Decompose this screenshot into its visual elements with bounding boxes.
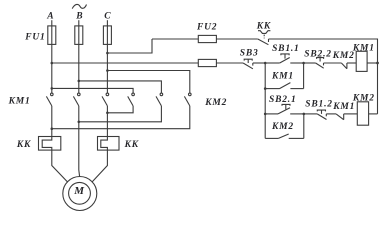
svg-text:KM1: KM1 — [271, 71, 294, 81]
button SB2.2 label — [304, 49, 332, 59]
wire C tap to control riser — [107, 39, 152, 53]
wire contact4 to node W — [107, 106, 133, 113]
button SB1.1 label — [272, 44, 300, 54]
thermal relay KK label right — [124, 140, 139, 150]
wire phase B vertical — [78, 44, 80, 93]
wire phase A top stub — [51, 20, 53, 26]
contact KM1 aux label — [271, 71, 294, 81]
svg-text:B: B — [75, 11, 83, 21]
svg-text:A: A — [46, 11, 54, 21]
node bus junction — [376, 62, 379, 65]
contact KM2 interlock (NC) — [324, 63, 357, 69]
svg-text:KM2: KM2 — [204, 98, 227, 108]
node W junction — [106, 112, 109, 115]
node: A feed junction for KM2 — [51, 87, 54, 90]
wire A tap to FU2 — [52, 62, 199, 64]
svg-text:SB2.1: SB2.1 — [269, 95, 297, 105]
svg-text:KK: KK — [256, 21, 271, 31]
wire motor lead right — [92, 150, 108, 182]
wire branch vertical X1 down — [264, 63, 266, 138]
svg-text:KM1: KM1 — [332, 102, 355, 112]
svg-text:SB1.2: SB1.2 — [305, 99, 333, 109]
node aux1 junction — [264, 87, 267, 90]
coil KM2 — [357, 102, 368, 125]
wire contact3 bottom — [106, 106, 108, 137]
contact KM1 interlock label (rung2) — [332, 102, 355, 112]
wire C feed to contact 6 — [107, 71, 189, 93]
button SB2.1 (NO) — [265, 104, 304, 114]
thermal contact KK blade (NC) — [258, 39, 269, 45]
thermal contact KK actuator — [258, 31, 270, 39]
fuse FU1 phase B — [75, 26, 83, 45]
wire phase B top stub — [78, 20, 80, 26]
svg-text:FU1: FU1 — [24, 32, 45, 42]
wire contact5 to node V — [79, 106, 162, 122]
svg-text:KM1: KM1 — [352, 44, 375, 54]
contact KM1 pole 3 — [102, 93, 109, 106]
svg-text:KM1: KM1 — [8, 97, 31, 107]
fuse FU1 phase A — [48, 26, 56, 45]
svg-text:C: C — [104, 11, 111, 21]
wire phase C top stub — [106, 20, 108, 26]
svg-text:KM2: KM2 — [271, 122, 294, 132]
svg-text:M: M — [73, 185, 85, 197]
svg-text:FU2: FU2 — [196, 22, 217, 32]
svg-text:SB3: SB3 — [240, 49, 259, 59]
wire phase A vertical — [51, 44, 53, 93]
node B label — [75, 11, 83, 21]
fuse FU2 label — [196, 22, 217, 32]
button SB1.1 (NO) — [265, 54, 303, 63]
node rung2 left junction — [264, 113, 267, 116]
node: A tap junction — [51, 62, 54, 65]
node X2 junction — [302, 62, 305, 65]
node U junction — [51, 127, 54, 130]
svg-text:KK: KK — [16, 140, 31, 150]
contact KM1 pole 2 — [73, 93, 80, 106]
svg-text:KM2: KM2 — [332, 51, 355, 61]
node C label — [104, 11, 111, 21]
contact KM2 pole 3 — [184, 93, 191, 106]
button SB3 (NC) — [243, 59, 253, 69]
motor M label — [73, 185, 85, 197]
thermal relay KK heater right — [98, 137, 120, 151]
thermal contact KK label — [256, 21, 271, 31]
wire phase C vertical — [106, 44, 108, 93]
contact KM2 aux (NO) — [265, 114, 304, 138]
contact KM2 pole 1 — [128, 93, 135, 106]
svg-text:SB1.1: SB1.1 — [272, 44, 300, 54]
contactor KM2 label (power contacts) — [204, 98, 227, 108]
contact KM1 interlock (NC) — [326, 114, 357, 120]
wire motor lead middle — [78, 150, 81, 177]
fuse FU2 upper — [152, 35, 258, 42]
wire contact1 bottom — [51, 106, 53, 137]
wire contact6 to node U — [52, 106, 190, 129]
button SB3 label — [240, 49, 259, 59]
wire top to right bus — [269, 39, 378, 114]
button SB2.1 label — [269, 95, 297, 105]
node V junction — [78, 121, 81, 124]
contact KM2 pole 2 — [156, 93, 163, 106]
node rung2 right junction — [303, 113, 306, 116]
AC tilde symbol — [72, 4, 86, 8]
contact KM1 pole 1 — [46, 93, 53, 106]
wire B feed to contact 5 — [79, 81, 162, 93]
node A label — [46, 11, 54, 21]
contact KM2 aux label — [271, 122, 294, 132]
coil KM2 label — [352, 93, 375, 103]
thermal relay KK heater left — [39, 137, 61, 151]
node: C feed junction for KM2 — [106, 69, 109, 72]
contact KM2 interlock label (rung1) — [332, 51, 355, 61]
button SB1.2 label — [305, 99, 333, 109]
node X1 junction — [264, 62, 267, 65]
wire motor lead left — [52, 150, 68, 182]
coil KM1 — [356, 51, 367, 71]
fuse FU2 lower — [198, 59, 243, 66]
fuse FU1 label — [24, 32, 45, 42]
fuse FU1 phase C — [103, 26, 111, 45]
contact KM1 aux (NO) — [265, 63, 303, 89]
wire SB3 to X1 — [253, 62, 265, 64]
button SB1.2 (NC) — [304, 110, 327, 119]
svg-text:KK: KK — [124, 140, 139, 150]
contactor KM1 label (power contacts) — [8, 97, 31, 107]
node: B feed junction for KM2 — [78, 80, 81, 83]
wire A feed to contact 4 — [52, 88, 133, 93]
wire coil KM2 to bus — [369, 113, 378, 115]
coil KM1 label — [352, 44, 375, 54]
node: C tap junction — [106, 52, 109, 55]
motor M — [63, 177, 97, 211]
button SB2.2 (NC) — [304, 58, 324, 69]
wire contact2 bottom — [78, 106, 80, 150]
thermal relay KK label left — [16, 140, 31, 150]
wire coil KM1 to bus — [367, 62, 377, 64]
